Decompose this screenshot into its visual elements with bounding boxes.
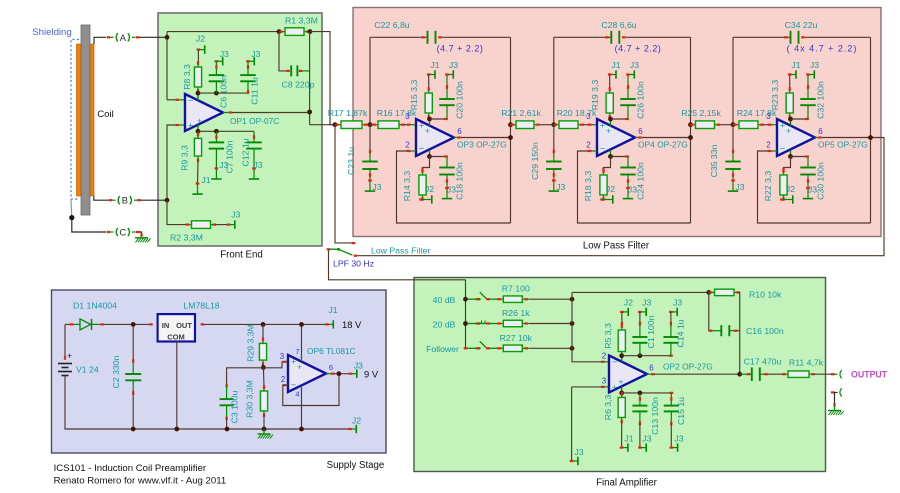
ground at C bbox=[135, 237, 148, 239]
svg-text:J3: J3 bbox=[642, 298, 651, 308]
wire coil A bbox=[94, 37, 106, 44]
capacitor C22 6,8u bbox=[427, 31, 429, 44]
svg-text:(4.7 + 2.2): (4.7 + 2.2) bbox=[615, 44, 662, 54]
pin J3 9V bbox=[351, 373, 357, 375]
wire regulator COM bbox=[176, 342, 178, 430]
coil winding bbox=[77, 44, 95, 196]
svg-text:J3: J3 bbox=[253, 160, 262, 170]
svg-text:Low Pass Filter: Low Pass Filter bbox=[371, 246, 430, 256]
svg-text:R9 3,3: R9 3,3 bbox=[179, 145, 189, 171]
node C1 bottom bbox=[638, 353, 643, 358]
svg-text:J1: J1 bbox=[328, 305, 337, 315]
node bottom stub bbox=[788, 154, 793, 159]
wire C to ground bbox=[139, 232, 142, 235]
pin J3 above C11 bbox=[248, 60, 254, 62]
svg-text:V1 24: V1 24 bbox=[76, 365, 99, 375]
svg-text:3: 3 bbox=[602, 377, 607, 386]
svg-text:−: − bbox=[419, 144, 425, 155]
svg-text:C20 100n: C20 100n bbox=[455, 81, 465, 119]
pin J1 above R23 bbox=[790, 74, 796, 76]
node next stage tap bbox=[688, 122, 693, 127]
resistor R17 1,87k bbox=[336, 124, 341, 126]
svg-text:2: 2 bbox=[586, 141, 591, 150]
svg-text:6: 6 bbox=[649, 364, 654, 373]
svg-text:2: 2 bbox=[602, 352, 607, 361]
svg-text:(4.7 + 2.2): (4.7 + 2.2) bbox=[437, 44, 484, 54]
svg-text:COM: COM bbox=[167, 333, 185, 342]
battery V1 24 bbox=[64, 324, 66, 358]
node C2 bottom bbox=[131, 427, 136, 432]
svg-text:2: 2 bbox=[766, 141, 771, 150]
svg-text:OP1 OP-07C: OP1 OP-07C bbox=[230, 116, 279, 126]
capacitor C28 6,6u bbox=[610, 31, 612, 44]
node top stub bbox=[608, 117, 613, 122]
wire J2 to R8 bbox=[197, 50, 199, 62]
svg-text:J1: J1 bbox=[791, 60, 800, 70]
svg-text:+: + bbox=[419, 121, 425, 132]
op-amp OP2 bottom stub bbox=[621, 387, 623, 393]
capacitor C3 100u bbox=[226, 386, 228, 400]
wire output bbox=[635, 137, 641, 139]
svg-text:20 dB: 20 dB bbox=[433, 319, 456, 329]
svg-text:R17 1,87k: R17 1,87k bbox=[328, 108, 368, 118]
op-amp bottom stub bbox=[610, 150, 612, 157]
node OP2 top bbox=[619, 353, 624, 358]
wire + input vertical from B bbox=[167, 125, 177, 200]
svg-text:−: − bbox=[600, 144, 606, 155]
wire feedback cap row C22 6,8u bbox=[370, 36, 427, 38]
svg-text:J3: J3 bbox=[810, 60, 819, 70]
svg-text:C1 100n: C1 100n bbox=[646, 315, 656, 348]
svg-text:R27 10k: R27 10k bbox=[500, 333, 533, 343]
svg-text:OUTPUT: OUTPUT bbox=[851, 370, 888, 380]
pin J2 bbox=[198, 49, 204, 51]
pin J1 below R9 bbox=[197, 184, 199, 194]
wire feedback cap row C34 22u bbox=[733, 36, 790, 38]
diode D1 1N4004 bbox=[70, 323, 74, 325]
svg-text:J3: J3 bbox=[449, 60, 458, 70]
wire B down to R2 row bbox=[167, 200, 187, 224]
node OP2 bottom bbox=[619, 391, 624, 396]
svg-text:R22 3,3: R22 3,3 bbox=[763, 171, 773, 202]
op-amp bottom stub bbox=[790, 150, 792, 157]
wire input vertical bbox=[465, 280, 467, 349]
node output bbox=[508, 135, 513, 140]
wire R2 to J3 bbox=[215, 224, 227, 226]
node stage junction bbox=[368, 122, 373, 127]
wire OP2 output bbox=[647, 373, 652, 375]
wire A to front end bbox=[139, 36, 167, 38]
supply stage box bbox=[52, 290, 387, 453]
wire OP1 output bbox=[223, 112, 229, 114]
wire R1 to output bus bbox=[310, 32, 335, 125]
svg-text:C32 100n: C32 100n bbox=[816, 81, 826, 119]
wire diode to regulator bbox=[104, 323, 150, 325]
pin J1 above R19 bbox=[610, 74, 616, 76]
svg-text:C28 6,6u: C28 6,6u bbox=[601, 20, 636, 30]
svg-text:+: + bbox=[425, 126, 430, 136]
svg-text:R15 3,3: R15 3,3 bbox=[409, 80, 419, 111]
svg-text:J2: J2 bbox=[425, 184, 434, 194]
wire feedback cap row C28 6,6u bbox=[554, 36, 611, 38]
resistor R30 3,3M bbox=[262, 368, 265, 388]
op-amp top stub bbox=[790, 119, 792, 126]
svg-text:Supply Stage: Supply Stage bbox=[327, 460, 385, 471]
wire to + input bbox=[583, 124, 589, 126]
node output / feedback bbox=[737, 372, 742, 377]
capacitor C35 33n bbox=[732, 125, 734, 152]
svg-text:R6 3,3: R6 3,3 bbox=[603, 395, 613, 421]
svg-text:R11 4,7k: R11 4,7k bbox=[789, 358, 824, 368]
node C2 top bbox=[131, 322, 136, 327]
capacitor C12 1u bbox=[253, 131, 255, 142]
wire R10 right down bbox=[738, 292, 740, 374]
op-amp OP6 power stubs bbox=[301, 324, 303, 358]
node front end output bbox=[333, 122, 338, 127]
wire + input from J3 bbox=[572, 386, 601, 388]
svg-text:+: + bbox=[188, 121, 194, 132]
svg-text:J3: J3 bbox=[642, 434, 651, 444]
pin J2 below R22 bbox=[780, 198, 784, 200]
svg-text:J2: J2 bbox=[786, 184, 795, 194]
wire supply top rail bbox=[65, 323, 70, 325]
wire OP6 output bbox=[327, 373, 332, 375]
svg-text:J2: J2 bbox=[624, 298, 633, 308]
wire to + input bbox=[404, 124, 408, 126]
svg-text:J3: J3 bbox=[251, 49, 260, 59]
svg-text:C22 6,8u: C22 6,8u bbox=[374, 20, 409, 30]
capacitor C16 100n bbox=[712, 330, 721, 332]
svg-text:18 V: 18 V bbox=[342, 319, 362, 330]
svg-text:+: + bbox=[197, 116, 202, 126]
capacitor C24 100n bbox=[627, 157, 629, 168]
op-amp OP4 OP-27G bbox=[597, 119, 635, 156]
capacitor C1 100n bbox=[639, 312, 641, 325]
wire bottom node to cap bbox=[611, 156, 629, 158]
resistor R29 3,3M bbox=[262, 324, 264, 340]
capacitor C26 100n bbox=[627, 75, 629, 100]
op-amp OP2 OP-27G bbox=[609, 356, 647, 393]
capacitor C23 1u bbox=[369, 125, 371, 152]
node R10 left bbox=[706, 290, 711, 295]
resistor R6 3,3 bbox=[621, 393, 623, 398]
svg-text:+: + bbox=[619, 377, 624, 387]
svg-text:C6 100n: C6 100n bbox=[219, 75, 229, 108]
svg-text:J2: J2 bbox=[352, 416, 361, 426]
resistor R15 3,3 bbox=[428, 75, 430, 90]
op-amp OP1 top stub bbox=[197, 93, 199, 101]
wire output bbox=[454, 137, 460, 139]
wire - input bbox=[167, 99, 177, 101]
svg-text:OP4 OP-27G: OP4 OP-27G bbox=[638, 140, 688, 150]
wire merge vertical to - input bbox=[572, 292, 601, 361]
resistor R11 4,7k bbox=[783, 373, 788, 375]
svg-text:LM78L18: LM78L18 bbox=[183, 301, 219, 311]
node stage junction bbox=[551, 122, 556, 127]
capacitor C14 1u bbox=[670, 312, 672, 325]
connector A bbox=[107, 36, 111, 38]
svg-text:3: 3 bbox=[586, 112, 591, 121]
connector C bbox=[107, 231, 111, 233]
pin J2 above R5 bbox=[622, 311, 628, 313]
wire R9 to J1 bbox=[197, 161, 200, 184]
pin J3 above C20 bbox=[447, 74, 453, 76]
svg-text:C: C bbox=[119, 228, 126, 238]
capacitor C17 470u bbox=[740, 373, 752, 375]
node 40dB row bbox=[463, 297, 468, 302]
svg-text:C12 1u: C12 1u bbox=[241, 138, 251, 166]
wire battery to bottom rail bbox=[65, 376, 350, 430]
capacitor C20 100n bbox=[446, 75, 448, 100]
svg-text:J3: J3 bbox=[574, 447, 583, 457]
op-amp OP6 TL081C bbox=[288, 355, 326, 392]
node next stage tap bbox=[508, 122, 513, 127]
svg-text:R21 2,61k: R21 2,61k bbox=[501, 108, 541, 118]
node divider mid bbox=[261, 365, 266, 370]
svg-text:J3: J3 bbox=[808, 185, 817, 195]
svg-text:J3: J3 bbox=[735, 182, 744, 192]
svg-text:R30 3,3M: R30 3,3M bbox=[245, 380, 255, 418]
switch + resistor R27 10k bbox=[467, 347, 477, 349]
switch + resistor R7 100 bbox=[467, 298, 477, 300]
svg-text:J3: J3 bbox=[372, 182, 381, 192]
svg-text:C2 330n: C2 330n bbox=[111, 355, 121, 388]
pin J2 below R18 bbox=[600, 198, 604, 200]
svg-text:2: 2 bbox=[405, 141, 410, 150]
resistor R1 3,3M bbox=[280, 31, 285, 33]
svg-text:R25 2,15k: R25 2,15k bbox=[681, 108, 721, 118]
svg-text:C26 100n: C26 100n bbox=[636, 81, 646, 119]
op-amp OP5 OP-27G bbox=[777, 119, 815, 156]
pin J3 below C30 bbox=[807, 188, 809, 198]
svg-text:J2: J2 bbox=[196, 34, 205, 44]
node R1 left bbox=[277, 29, 282, 34]
svg-text:J3: J3 bbox=[556, 182, 565, 192]
svg-text:J3: J3 bbox=[354, 361, 363, 371]
resistor R18 3,3 bbox=[604, 157, 611, 172]
capacitor C32 100n bbox=[807, 75, 809, 100]
wire top node to cap bbox=[791, 118, 809, 120]
svg-text:R10 10k: R10 10k bbox=[749, 290, 782, 300]
node OP1 output feedback bbox=[307, 110, 312, 115]
op-amp top stub bbox=[429, 119, 431, 126]
final amplifier box bbox=[414, 278, 826, 472]
svg-text:J3: J3 bbox=[220, 49, 229, 59]
wire C17 to R11 bbox=[768, 373, 783, 375]
node below R8 bbox=[196, 91, 201, 96]
svg-text:+: + bbox=[291, 357, 297, 368]
pin J3 below + input bbox=[572, 460, 578, 462]
svg-text:−: − bbox=[612, 357, 618, 368]
op-amp OP2 top stub bbox=[621, 356, 623, 362]
connector B bbox=[109, 199, 113, 201]
svg-text:3: 3 bbox=[766, 112, 771, 121]
svg-text:+: + bbox=[780, 121, 786, 132]
svg-text:Final Amplifier: Final Amplifier bbox=[596, 478, 658, 489]
svg-text:ICS101 - Induction Coil Preamp: ICS101 - Induction Coil Preamplifier bbox=[54, 463, 207, 474]
svg-text:J1: J1 bbox=[201, 175, 210, 185]
svg-text:R8 3,3: R8 3,3 bbox=[182, 64, 192, 90]
svg-text:C13 100n: C13 100n bbox=[650, 397, 660, 435]
capacitor C8 220p bbox=[290, 65, 292, 76]
svg-text:C3 100u: C3 100u bbox=[230, 390, 240, 423]
resistor R25 2,15k bbox=[691, 124, 696, 126]
wire output exits box bbox=[310, 124, 335, 126]
capacitor C2 330n bbox=[132, 324, 134, 361]
svg-text:R19 3,3: R19 3,3 bbox=[590, 80, 600, 111]
svg-text:+: + bbox=[297, 362, 302, 372]
svg-text:−: − bbox=[188, 96, 194, 107]
svg-text:OP6 TL081C: OP6 TL081C bbox=[307, 346, 356, 356]
capacitor C11 1u bbox=[247, 61, 249, 75]
connector OUTPUT bbox=[835, 373, 838, 375]
pin J3 above C26 bbox=[628, 74, 634, 76]
svg-text:J1: J1 bbox=[611, 60, 620, 70]
node 20dB row bbox=[463, 321, 468, 326]
svg-text:J3: J3 bbox=[673, 298, 682, 308]
resistor R10 10k bbox=[710, 291, 715, 293]
svg-text:R26 1k: R26 1k bbox=[502, 308, 530, 318]
resistor R16 17,8k bbox=[373, 124, 378, 126]
svg-text:Renato Romero for www.vlf.it -: Renato Romero for www.vlf.it - Aug 2011 bbox=[54, 476, 227, 487]
resistor R21 2,61k bbox=[511, 124, 516, 126]
svg-text:C35 33n: C35 33n bbox=[709, 144, 719, 177]
wire bottom node to cap bbox=[430, 156, 448, 158]
resistor R24 17,8k bbox=[734, 124, 739, 126]
wire R8 to node bbox=[197, 92, 199, 93]
svg-text:R18 3,3: R18 3,3 bbox=[583, 171, 593, 202]
wire C34 22u left vertical bbox=[732, 37, 734, 124]
svg-text:+: + bbox=[786, 126, 791, 136]
node R29 top bbox=[261, 322, 266, 327]
node R30 bottom bbox=[262, 427, 267, 432]
svg-text:( 4x 4.7 + 2.2): ( 4x 4.7 + 2.2) bbox=[787, 44, 858, 54]
svg-text:C17 470u: C17 470u bbox=[744, 357, 782, 367]
pin J3 below C18 bbox=[446, 188, 448, 198]
wire feedback top row bbox=[167, 31, 279, 33]
svg-text:D1 1N4004: D1 1N4004 bbox=[73, 301, 117, 311]
capacitor C6 100n bbox=[215, 61, 217, 75]
wire C28 6,6u left vertical bbox=[553, 37, 555, 124]
svg-text:C15 1u: C15 1u bbox=[676, 397, 686, 425]
pin J3 below C24 bbox=[627, 188, 629, 198]
svg-text:+: + bbox=[612, 383, 618, 394]
resistor R9 3,3 bbox=[197, 131, 199, 138]
pin J1 above R15 bbox=[429, 74, 435, 76]
svg-text:R2 3,3M: R2 3,3M bbox=[170, 233, 203, 243]
wire C8 left vertical bbox=[279, 32, 286, 71]
capacitor C18 100n bbox=[446, 157, 448, 168]
wire top node row bbox=[198, 92, 248, 94]
pin J3 above C6 bbox=[216, 60, 222, 62]
svg-text:Front End: Front End bbox=[220, 250, 263, 261]
wire LPF output rail bbox=[358, 138, 885, 256]
wire C22 6,8u right vertical bbox=[510, 37, 512, 223]
svg-text:OP5 OP-27G: OP5 OP-27G bbox=[818, 140, 868, 150]
svg-text:6: 6 bbox=[818, 127, 823, 136]
op-amp OP1 bottom stub bbox=[197, 124, 199, 131]
node OP6 pin7 rail bbox=[299, 322, 304, 327]
shielding dashed outline bbox=[71, 40, 79, 200]
pin J3 below shunt cap bbox=[553, 181, 555, 191]
capacitor C7 100n bbox=[215, 131, 217, 142]
wire shield to C bbox=[72, 218, 106, 232]
node A junction bbox=[166, 32, 168, 100]
wire to C3 bbox=[227, 368, 264, 385]
wire coil B bbox=[94, 196, 109, 200]
pin J3 below C15 bbox=[671, 447, 677, 449]
node C3 bottom bbox=[225, 427, 230, 432]
svg-text:9 V: 9 V bbox=[364, 369, 379, 380]
node C7 top bbox=[214, 129, 219, 134]
node OP6 output bbox=[337, 371, 342, 376]
node C13 top bbox=[638, 391, 643, 396]
svg-text:J3: J3 bbox=[628, 185, 637, 195]
svg-text:+: + bbox=[606, 126, 611, 136]
wire C28 6,6u right vertical bbox=[690, 37, 692, 223]
wire bypass vertical to switch bbox=[335, 125, 352, 243]
wire C34 22u right vertical bbox=[870, 37, 872, 223]
pin J3 below shunt cap bbox=[369, 181, 371, 191]
capacitor C13 100n bbox=[639, 393, 641, 406]
node B junction bbox=[165, 198, 170, 203]
svg-text:40 dB: 40 dB bbox=[433, 295, 456, 305]
svg-text:A: A bbox=[120, 33, 127, 43]
svg-text:Coil: Coil bbox=[97, 109, 114, 120]
pin J3 after R2 bbox=[229, 224, 235, 226]
coil core bbox=[81, 25, 90, 215]
node COM ground bbox=[174, 427, 179, 432]
svg-text:R29 3,3M: R29 3,3M bbox=[246, 324, 256, 362]
wire C22 6,8u left vertical bbox=[369, 37, 371, 124]
svg-text:B: B bbox=[122, 196, 128, 206]
node bottom stub bbox=[427, 154, 432, 159]
pin J1 18V bbox=[327, 323, 333, 325]
pin J3 above C32 bbox=[808, 74, 814, 76]
node OP6 pin4 rail bbox=[299, 427, 304, 432]
resistor R8 3,3 bbox=[197, 62, 199, 67]
wire divider to + input bbox=[263, 362, 283, 368]
svg-text:J3: J3 bbox=[231, 210, 240, 220]
svg-text:C14 1u: C14 1u bbox=[676, 319, 686, 347]
switch LPF select bbox=[327, 248, 331, 250]
resistor R20 18,7k bbox=[554, 124, 559, 126]
svg-text:J3: J3 bbox=[674, 434, 683, 444]
wire B to front end bbox=[141, 199, 168, 201]
svg-text:OP2 OP-27G: OP2 OP-27G bbox=[663, 362, 713, 372]
pin J3 above C1 bbox=[640, 311, 646, 313]
capacitor C34 22u bbox=[790, 31, 792, 44]
pin J2 supply ground bbox=[350, 428, 356, 430]
svg-text:J1: J1 bbox=[430, 60, 439, 70]
svg-text:C11 1u: C11 1u bbox=[250, 77, 260, 105]
svg-text:C23 1u: C23 1u bbox=[346, 147, 356, 175]
svg-text:J1: J1 bbox=[624, 434, 633, 444]
op-amp top stub bbox=[610, 119, 612, 126]
svg-text:6: 6 bbox=[457, 127, 462, 136]
svg-text:Follower: Follower bbox=[426, 344, 459, 354]
wire bottom node row bbox=[622, 392, 672, 394]
node top stub bbox=[788, 117, 793, 122]
svg-text:Low Pass Filter: Low Pass Filter bbox=[583, 241, 650, 252]
wire to + input bbox=[763, 124, 769, 126]
svg-text:6: 6 bbox=[329, 363, 333, 372]
svg-text:J2: J2 bbox=[606, 184, 615, 194]
pin J1 below R6 bbox=[622, 447, 628, 449]
svg-text:OUT: OUT bbox=[176, 321, 192, 330]
pin J2 below R14 bbox=[419, 198, 423, 200]
wire R11 to output connector bbox=[814, 373, 831, 375]
